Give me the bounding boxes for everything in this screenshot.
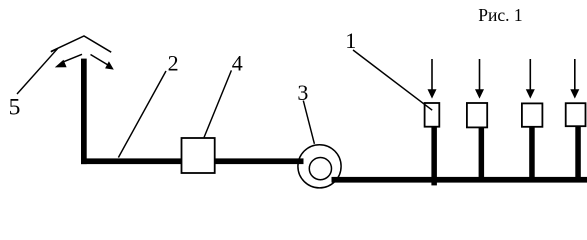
- inflow arrow above box 2: [475, 59, 484, 99]
- riser pipe 4: [575, 120, 581, 180]
- riser pipe 3: [529, 120, 535, 180]
- inflow arrow above box 3: [526, 59, 535, 99]
- svg-text:4: 4: [232, 51, 243, 76]
- leader line from label 2 to left duct: [118, 71, 166, 158]
- inlet box 2: [467, 103, 487, 127]
- left horizontal duct (thick pipe): [81, 158, 304, 164]
- vertical exhaust stack pipe: [81, 59, 87, 165]
- riser pipe 2: [479, 120, 485, 180]
- inlet box 4: [566, 103, 586, 126]
- svg-text:5: 5: [9, 94, 21, 120]
- svg-text:3: 3: [297, 80, 308, 105]
- right exhaust arrow under roof: [91, 55, 114, 70]
- leader line from label 4 to filter box: [204, 70, 231, 137]
- riser pipe 1: [431, 120, 437, 185]
- svg-text:2: 2: [168, 51, 179, 76]
- filter box on left duct (item 4): [182, 138, 215, 173]
- inflow arrow above box 4: [570, 59, 579, 99]
- fan/pump housing outer circle (item 3): [298, 145, 341, 188]
- svg-text:Рис. 1: Рис. 1: [478, 5, 522, 25]
- svg-text:1: 1: [345, 28, 356, 53]
- leader line from label 1 to box 1: [353, 50, 432, 110]
- inlet box 3: [522, 103, 543, 126]
- right horizontal distribution pipe (thick): [332, 177, 587, 183]
- leader line from label 3 to housing: [303, 101, 314, 144]
- fan impeller inner circle: [309, 158, 331, 180]
- leader line from label 5 with arrowhead: [17, 49, 58, 94]
- left exhaust arrow under roof: [55, 54, 82, 67]
- roof / deflector over stack: [51, 36, 111, 52]
- inlet box 1: [425, 103, 440, 127]
- inflow arrow above box 1: [428, 59, 437, 99]
